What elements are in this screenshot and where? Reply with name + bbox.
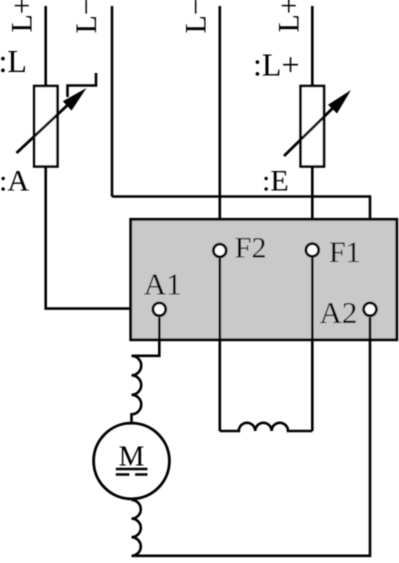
slider contact step stub	[68, 73, 97, 97]
wire F2 down to field winding	[219, 258, 222, 431]
svg-text::L+: :L+	[253, 47, 299, 83]
svg-text:L+: L+	[6, 0, 39, 33]
motor M1 circle	[94, 423, 170, 499]
DC symbol dashed bar	[116, 473, 148, 476]
field winding coil F2-F1	[220, 423, 312, 431]
terminal F2	[213, 244, 226, 257]
armature series coil upper	[132, 356, 142, 423]
resistor R1 starter rheostat body	[34, 86, 57, 167]
wire A1 down and left to armature coil	[132, 317, 160, 356]
terminal A2	[364, 303, 377, 316]
bottom return wire to A2	[132, 317, 371, 556]
svg-text:F2: F2	[235, 232, 267, 265]
svg-text:L−: L−	[180, 0, 213, 34]
svg-text:L−: L−	[70, 0, 103, 34]
resistor R2 field rheostat body	[301, 86, 324, 167]
svg-text:M: M	[119, 441, 145, 473]
svg-text:F1: F1	[329, 236, 361, 269]
wire bus1 L+ vertical	[44, 6, 47, 86]
terminal A1	[153, 303, 166, 316]
wire L- over to A2 column	[112, 197, 370, 302]
terminal F1	[306, 244, 319, 257]
rheostat R2 arrow	[284, 90, 351, 156]
svg-text::A: :A	[0, 165, 29, 198]
svg-text::L: :L	[0, 43, 27, 79]
svg-text:A2: A2	[320, 295, 358, 330]
wire R2 bottom to terminal F1	[311, 167, 314, 243]
terminal box (motor connection board)	[131, 219, 397, 339]
svg-text:L+: L+	[273, 0, 306, 33]
armature coil lower	[132, 500, 141, 556]
wire bus4 L+ vertical	[311, 6, 314, 86]
svg-text:A1: A1	[144, 267, 182, 302]
wire F1 down to field winding	[311, 258, 314, 431]
wire R1 bottom to terminal A1	[46, 167, 152, 309]
wire bus2 L- vertical	[111, 6, 114, 197]
svg-text::E: :E	[262, 165, 289, 198]
DC symbol solid bar	[116, 468, 148, 471]
rheostat R1 arrow	[17, 88, 87, 153]
wire bus3 L- vertical to F2	[219, 6, 222, 243]
